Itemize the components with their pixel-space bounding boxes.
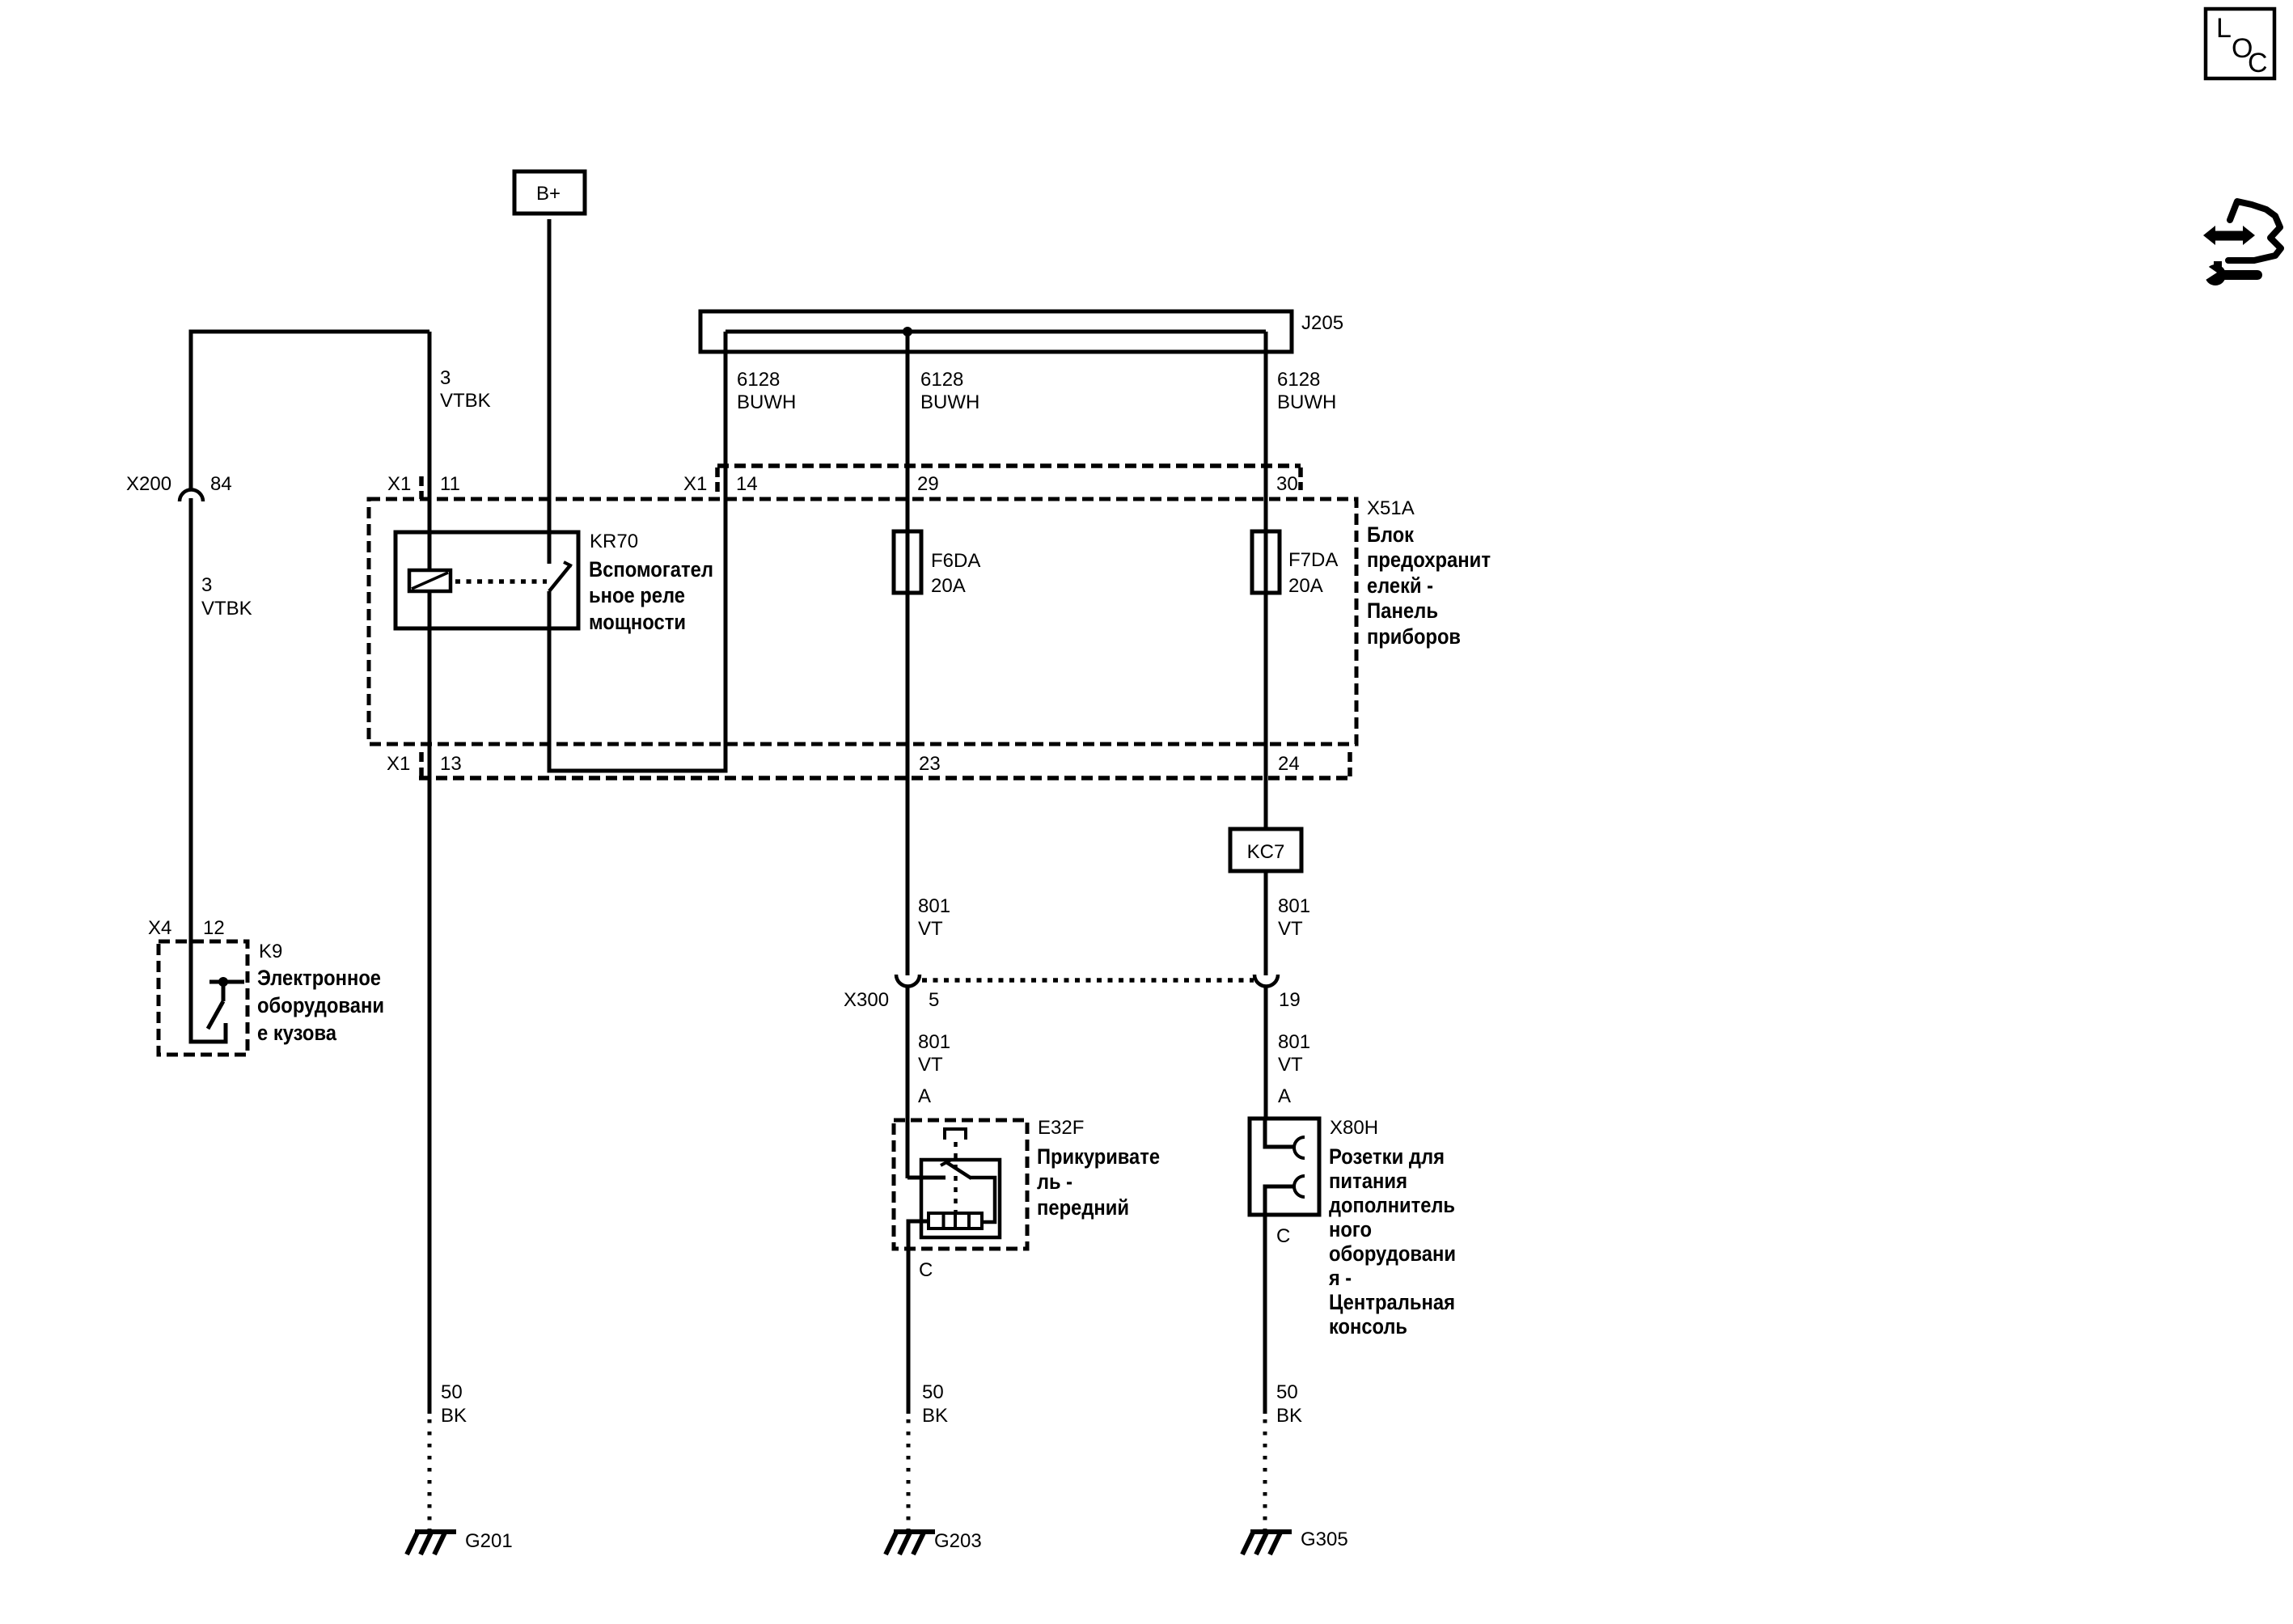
svg-text:G201: G201 <box>465 1530 513 1552</box>
svg-text:3: 3 <box>201 574 212 596</box>
tick X1|14 <box>715 467 720 495</box>
wire: KC7 down to X300 <box>1264 871 1268 975</box>
svg-text:VTBK: VTBK <box>440 390 491 412</box>
svg-text:B+: B+ <box>536 183 561 205</box>
connector X300 arc pin 19 <box>1254 975 1278 987</box>
connector X300 arc pin 5 <box>896 975 920 987</box>
svg-text:50: 50 <box>441 1381 463 1403</box>
wire: relay coil output down to ground dotted section <box>428 590 432 1414</box>
svg-text:BUWH: BUWH <box>920 391 979 413</box>
svg-text:Прикуривате: Прикуривате <box>1037 1144 1160 1169</box>
tick X1|13 <box>419 752 424 776</box>
wire: bus through fuse F6DA down <box>906 332 910 975</box>
svg-text:BK: BK <box>1276 1405 1302 1427</box>
svg-text:801: 801 <box>1278 1031 1310 1053</box>
svg-text:X300: X300 <box>844 989 889 1011</box>
J205 bus bar <box>700 311 1292 352</box>
relay switch blade <box>549 565 570 591</box>
svg-text:6128: 6128 <box>1277 369 1320 391</box>
svg-text:E32F: E32F <box>1038 1117 1084 1139</box>
svg-text:X200: X200 <box>126 473 171 495</box>
wire dotted to G305 <box>1263 1419 1267 1530</box>
svg-text:KC7: KC7 <box>1247 841 1285 863</box>
svg-text:X1: X1 <box>683 473 707 495</box>
splice KC7 box <box>1230 829 1301 871</box>
X80H lower socket stub and wire out <box>1265 1186 1295 1414</box>
svg-text:BUWH: BUWH <box>737 391 796 413</box>
X80H lower socket contact arc <box>1294 1176 1305 1197</box>
svg-text:J205: J205 <box>1301 312 1343 334</box>
svg-text:X51A: X51A <box>1367 497 1415 519</box>
svg-text:X1: X1 <box>387 753 410 775</box>
svg-text:23: 23 <box>919 753 941 775</box>
LOC box <box>2206 9 2274 78</box>
ground G305 <box>1242 1529 1348 1554</box>
wire: X300 down to X80H <box>1264 985 1268 1120</box>
svg-text:20A: 20A <box>1288 575 1323 597</box>
svg-text:30: 30 <box>1276 473 1298 495</box>
B+ supply box <box>514 171 585 214</box>
svg-text:Вспомогател: Вспомогател <box>589 557 713 582</box>
svg-text:я -: я - <box>1328 1266 1352 1290</box>
svg-text:801: 801 <box>918 895 950 917</box>
svg-text:Розетки для: Розетки для <box>1329 1144 1445 1169</box>
wire: X200 down to K9 switch <box>191 498 226 1042</box>
connector row X1 top (pins 14/29/30) dashed line <box>717 463 1301 468</box>
svg-text:X4: X4 <box>148 917 171 939</box>
E32F knob dotted link <box>954 1142 958 1212</box>
svg-text:дополнитель: дополнитель <box>1329 1193 1455 1217</box>
svg-text:Электронное: Электронное <box>257 966 381 990</box>
svg-text:Панель: Панель <box>1367 598 1438 623</box>
E32F switch upper contact <box>907 1176 946 1180</box>
ground G201 <box>407 1530 513 1554</box>
svg-text:13: 13 <box>440 753 462 775</box>
svg-text:VT: VT <box>918 918 943 940</box>
tick right end pin 30 <box>1298 467 1303 490</box>
svg-text:801: 801 <box>918 1031 950 1053</box>
label KR70 and description <box>589 531 713 634</box>
E32F switch blade <box>946 1162 971 1178</box>
svg-text:G305: G305 <box>1301 1529 1348 1550</box>
svg-text:C: C <box>2248 48 2268 78</box>
svg-text:24: 24 <box>1278 753 1300 775</box>
ground G203 <box>886 1530 982 1554</box>
svg-text:C: C <box>919 1259 933 1281</box>
X80H upper socket stub <box>1265 1120 1295 1147</box>
svg-text:BK: BK <box>441 1405 467 1427</box>
svg-text:VTBK: VTBK <box>201 598 252 620</box>
label X51A and description <box>1367 497 1491 649</box>
svg-text:Центральная: Центральная <box>1329 1290 1455 1314</box>
svg-text:VT: VT <box>1278 1054 1303 1076</box>
wire: element left out of E32F down <box>908 1221 929 1414</box>
svg-text:50: 50 <box>1276 1381 1298 1403</box>
lighter E32F dashed box <box>894 1120 1027 1249</box>
fuse F7DA <box>1252 531 1280 593</box>
svg-text:F6DA: F6DA <box>931 550 980 572</box>
svg-text:предохранит: предохранит <box>1367 548 1491 572</box>
connector X300 dotted line <box>922 978 1254 983</box>
wire: relay switch output down, right, and up through pin 14 to bus <box>549 332 726 771</box>
svg-text:G203: G203 <box>934 1530 982 1552</box>
svg-text:14: 14 <box>736 473 758 495</box>
relay link dotted <box>455 579 547 584</box>
svg-text:ль -: ль - <box>1037 1169 1072 1194</box>
E32F heating element <box>929 1213 982 1229</box>
svg-text:19: 19 <box>1279 989 1301 1011</box>
connector row X1 bottom (pins 13/23/24) dashed line <box>419 776 1350 780</box>
svg-text:BUWH: BUWH <box>1277 391 1336 413</box>
svg-text:12: 12 <box>203 917 225 939</box>
K9 switch blade <box>208 1001 223 1029</box>
wire dotted to G203 <box>907 1419 911 1530</box>
svg-text:консоль: консоль <box>1329 1314 1407 1339</box>
svg-text:приборов: приборов <box>1367 624 1461 649</box>
svg-text:ьное реле: ьное реле <box>589 583 685 607</box>
node: junction dot on bus <box>903 327 912 336</box>
K9 switch feed line <box>209 980 244 984</box>
K9 pivot stub <box>222 982 226 1001</box>
svg-text:L: L <box>2216 13 2232 44</box>
socket X80H box <box>1250 1119 1319 1215</box>
node: K9 pivot dot <box>218 977 228 987</box>
svg-text:3: 3 <box>440 367 451 389</box>
svg-text:передний: передний <box>1037 1195 1129 1220</box>
service icon (double arrow, vehicle outline, wrench) <box>2198 201 2281 285</box>
svg-text:6128: 6128 <box>920 369 963 391</box>
svg-text:VT: VT <box>1278 918 1303 940</box>
svg-text:84: 84 <box>210 473 232 495</box>
svg-text:C: C <box>1276 1225 1290 1247</box>
svg-text:29: 29 <box>917 473 939 495</box>
svg-text:11: 11 <box>440 473 460 495</box>
svg-text:KR70: KR70 <box>590 531 638 552</box>
label X80H and description <box>1328 1117 1456 1339</box>
svg-text:K9: K9 <box>259 941 282 962</box>
svg-text:оборудовани: оборудовани <box>257 993 384 1017</box>
svg-text:VT: VT <box>918 1054 943 1076</box>
svg-text:BK: BK <box>922 1405 948 1427</box>
wire dotted to G201 <box>428 1419 432 1530</box>
E32F inner housing box <box>921 1160 1000 1237</box>
svg-text:5: 5 <box>929 989 939 1011</box>
svg-text:A: A <box>1278 1085 1291 1107</box>
wire: top-left horizontal and left drop to X200 <box>191 332 429 489</box>
svg-text:питания: питания <box>1329 1169 1407 1193</box>
svg-text:мощности: мощности <box>589 610 686 634</box>
X80H upper socket contact arc <box>1294 1137 1305 1158</box>
svg-text:Блок: Блок <box>1367 522 1414 547</box>
svg-text:6128: 6128 <box>737 369 780 391</box>
svg-text:801: 801 <box>1278 895 1310 917</box>
svg-text:оборудовани: оборудовани <box>1329 1241 1456 1266</box>
svg-text:F7DA: F7DA <box>1288 549 1338 571</box>
connector X200 arc <box>180 490 203 502</box>
svg-text:X1: X1 <box>387 473 411 495</box>
fuse F6DA <box>894 531 921 593</box>
wire B+ down to relay switch <box>548 219 552 564</box>
svg-text:50: 50 <box>922 1381 944 1403</box>
svg-text:елекй -: елекй - <box>1367 573 1433 598</box>
label E32F and description <box>1037 1117 1160 1220</box>
wire: pin 11 wire from top horizontal down to relay coil <box>428 332 432 571</box>
svg-text:A: A <box>918 1085 931 1107</box>
svg-text:20A: 20A <box>931 575 966 597</box>
fuse block X51A dashed box <box>369 499 1356 744</box>
relay KR70 box <box>396 532 578 628</box>
E32F knob bracket <box>945 1129 966 1140</box>
svg-text:ного: ного <box>1329 1217 1372 1241</box>
label K9 and description <box>257 941 384 1045</box>
E32F right side path to element <box>970 1178 995 1222</box>
tick X1|11 <box>419 476 424 499</box>
tick right end pin 24 <box>1347 752 1352 776</box>
svg-text:X80H: X80H <box>1330 1117 1378 1139</box>
svg-text:е кузова: е кузова <box>257 1021 337 1045</box>
relay coil <box>409 570 451 591</box>
relay K9 dashed box <box>159 941 247 1055</box>
wire: X300 down to E32F <box>906 985 910 1178</box>
wire: bus through fuse F7DA down to KC7 <box>1264 332 1268 830</box>
